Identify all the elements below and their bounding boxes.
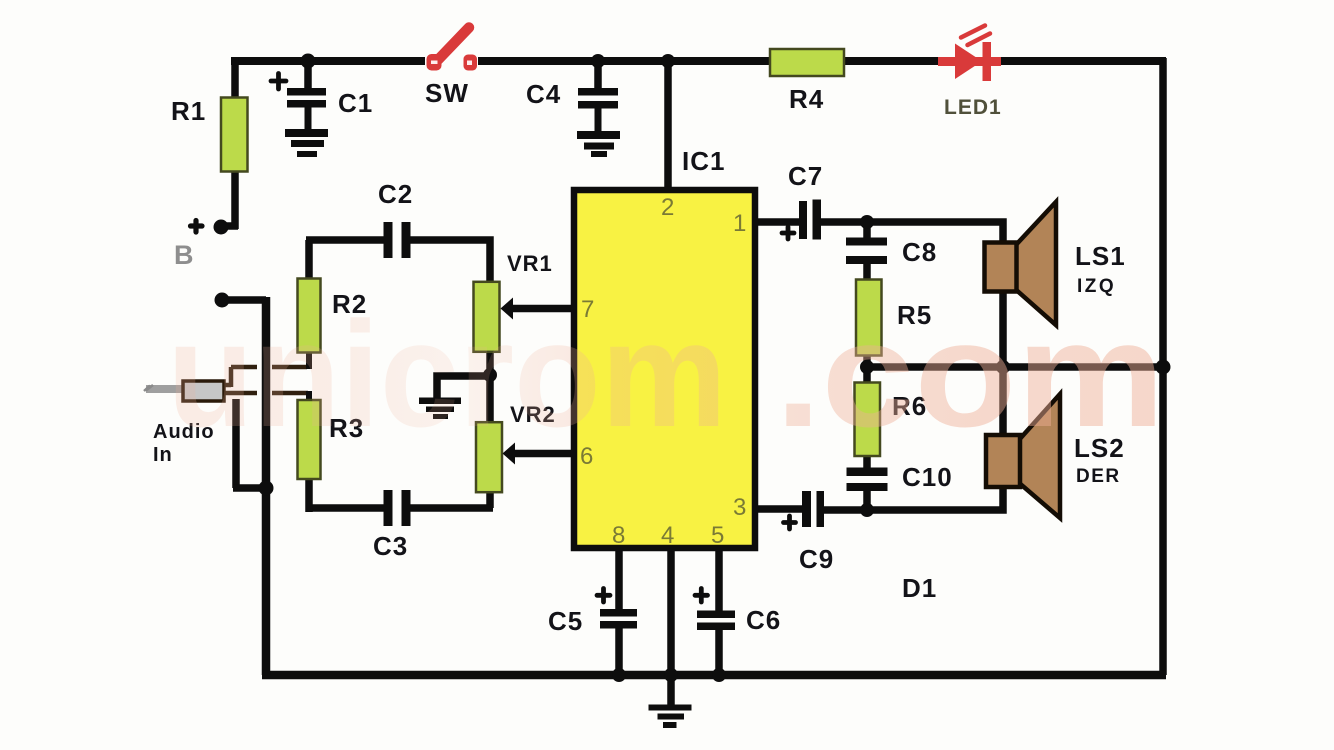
wire IC pin6 to VR2 <box>510 450 572 458</box>
wire IC pin8 to C5 <box>615 549 623 610</box>
svg-text:C7: C7 <box>788 161 823 191</box>
wire jack sleeve to bus <box>233 484 266 492</box>
wire IC pin1 to C7 <box>757 218 800 226</box>
node dot jack sleeve junction <box>259 481 274 496</box>
svg-text:unicrom: unicrom <box>167 290 727 458</box>
node dot top rail pin2 <box>661 54 675 68</box>
resistor R1 <box>221 98 248 172</box>
svg-text:C1: C1 <box>338 88 373 118</box>
wire C10 bottom stem <box>863 491 871 511</box>
plus sign C1 <box>271 74 286 90</box>
wire C8 bottom stem to R5 <box>863 264 871 280</box>
node dot top rail C1 <box>301 54 316 69</box>
svg-text:C5: C5 <box>548 606 583 636</box>
capacitor C3 plates <box>384 490 393 526</box>
node dot battery minus <box>215 293 230 308</box>
potentiometer VR2 wiper arrow <box>503 443 516 465</box>
resistor R5 <box>856 280 882 356</box>
svg-text:3: 3 <box>733 494 746 521</box>
wire IC pin5 to C6 <box>715 549 723 611</box>
capacitor C4 plates <box>578 88 618 96</box>
switch SW contact holes <box>431 61 438 65</box>
svg-text:IC1: IC1 <box>682 146 725 176</box>
resistor R3 <box>298 400 321 479</box>
wire VR2 bottom <box>486 492 494 508</box>
wire R6 top lead <box>863 367 871 383</box>
resistor R6 <box>855 383 881 457</box>
wire bottom rail <box>262 671 1166 680</box>
node dot R5 R6 junction <box>860 360 874 374</box>
IC1 body <box>574 190 755 548</box>
wire IC pin7 to VR1 <box>508 305 572 313</box>
wire C8 node to LS1 <box>867 222 1003 243</box>
capacitor C10 plates <box>847 468 888 477</box>
svg-text:4: 4 <box>661 522 674 549</box>
capacitor C9 plates <box>802 491 811 527</box>
plus sign C5 <box>597 589 610 603</box>
LED1 lead <box>938 57 1001 66</box>
wire ground stub at VR junction <box>437 376 490 398</box>
svg-text:LED1: LED1 <box>944 96 1002 119</box>
svg-text:D1: D1 <box>902 573 937 603</box>
svg-text:.com: .com <box>775 290 1165 458</box>
wire R2 top lead <box>305 240 313 279</box>
node dot VR wiper junction <box>483 368 497 382</box>
LED1 triangle <box>955 44 982 80</box>
speaker LS1 cone <box>1014 202 1056 325</box>
potentiometer VR1 body <box>474 282 500 352</box>
wire IC pin2 to top rail <box>664 61 672 188</box>
svg-text:B: B <box>174 240 195 270</box>
node dot bottom rail pin4 <box>664 668 678 682</box>
svg-text:2: 2 <box>661 194 674 221</box>
wire R2 bottom lead <box>306 352 312 369</box>
node dot battery plus <box>214 220 229 235</box>
wire R3 bottom lead <box>305 478 313 512</box>
capacitor C1 plates <box>287 88 326 96</box>
speaker LS2 cone <box>1018 394 1060 518</box>
wire C10 top stem <box>863 456 871 468</box>
node dot C7 C8 junction <box>860 215 874 229</box>
wire top rail right segment <box>999 57 1166 65</box>
wire top rail middle segment <box>478 57 940 65</box>
wire audio tip thin lead <box>222 367 307 387</box>
svg-text:C2: C2 <box>378 179 413 209</box>
svg-text:C6: C6 <box>746 605 781 635</box>
audio jack body <box>183 381 224 401</box>
switch SW lever <box>434 28 469 65</box>
wire R1 bottom lead <box>221 172 238 229</box>
svg-text:VR1: VR1 <box>507 251 553 276</box>
audio jack tip rod <box>146 385 183 393</box>
ground between VR1 VR2 <box>419 398 461 405</box>
wire mid rail R5 to right rail <box>867 363 1163 371</box>
wire C4 stem <box>594 58 602 89</box>
wire IC pin4 to bottom ground <box>667 549 675 705</box>
LED1 light arrows <box>961 26 990 46</box>
wire C8 top stem <box>863 222 871 238</box>
capacitor C2 plates <box>384 222 393 258</box>
svg-text:DER: DER <box>1076 466 1121 487</box>
wire R3 top lead <box>306 391 312 401</box>
wire top rail left segment <box>231 57 425 65</box>
resistor R2 <box>298 279 321 353</box>
svg-text:SW: SW <box>425 78 469 108</box>
switch SW right contact <box>464 55 478 71</box>
wire C7 to C8 node <box>820 218 867 226</box>
wire audio ring thin lead <box>222 391 308 396</box>
audio jack tip squiggle <box>144 385 153 391</box>
wire C5 bottom stem <box>615 628 623 675</box>
wire C3 left to R3 <box>306 504 384 512</box>
capacitor C8 plates <box>846 238 887 246</box>
svg-text:R4: R4 <box>789 84 824 114</box>
wire ground bus vertical <box>262 297 271 675</box>
svg-text:C3: C3 <box>373 531 408 561</box>
node dot C10 C9 junction <box>860 503 874 517</box>
svg-text:C10: C10 <box>902 462 953 492</box>
ground below pin4 <box>649 705 692 711</box>
svg-text:1: 1 <box>733 210 746 237</box>
plus sign C7 <box>782 227 794 239</box>
wire C6 bottom stem <box>715 630 723 675</box>
svg-text:8: 8 <box>612 522 625 549</box>
switch SW left contact <box>427 54 442 71</box>
node dot LS1 LS2 mid junction <box>996 360 1010 374</box>
plus sign C9 <box>784 516 796 529</box>
svg-text:R1: R1 <box>171 96 206 126</box>
node dot bottom rail C6 <box>712 668 726 682</box>
node dot top rail C4 <box>591 54 605 68</box>
node dot bottom rail C5 <box>612 668 626 682</box>
wire C9 to LS2 bottom <box>823 487 1003 510</box>
plus sign battery B <box>191 221 203 233</box>
ground below C4 <box>577 131 620 139</box>
node dot mid rail right <box>1156 360 1171 375</box>
LED1 cathode bar <box>983 42 992 81</box>
capacitor C6 plates <box>697 611 735 619</box>
svg-text:C8: C8 <box>902 237 937 267</box>
svg-text:C9: C9 <box>799 544 834 574</box>
wire jack sleeve down <box>232 399 240 488</box>
wire C3 right <box>410 504 493 512</box>
wire C2 left <box>306 236 384 244</box>
plus sign C6 <box>695 589 708 603</box>
wire battery minus to ground bus <box>222 296 266 304</box>
wire R1 top lead <box>231 58 239 98</box>
svg-text:LS1: LS1 <box>1075 241 1126 271</box>
capacitor C7 plates <box>799 201 807 239</box>
wire LS1 bottom through mid rail to LS2 top <box>999 291 1007 435</box>
resistor R4 <box>770 49 844 76</box>
speaker LS1 box <box>985 243 1017 292</box>
potentiometer VR1 wiper arrow <box>501 298 514 320</box>
wire IC pin3 to C9 <box>757 505 802 513</box>
ground below C1 <box>285 129 328 137</box>
svg-text:C4: C4 <box>526 79 561 109</box>
speaker LS2 box <box>986 435 1020 487</box>
wire C2 right to VR1 <box>410 240 490 282</box>
wire C1 stem <box>304 58 312 89</box>
capacitor C5 plates <box>600 609 637 617</box>
wire R5 bottom lead <box>863 355 871 367</box>
potentiometer VR2 body <box>476 422 502 492</box>
wire VR1 bottom to VR2 top <box>486 352 494 422</box>
svg-text:5: 5 <box>711 522 724 549</box>
wire right rail <box>1159 58 1167 675</box>
